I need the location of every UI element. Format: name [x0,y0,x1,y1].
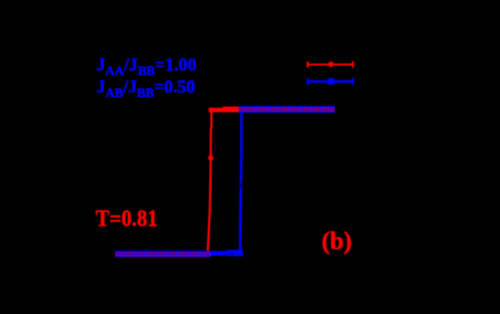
svg-text:T=0.81: T=0.81 [96,205,158,231]
series blue: lower band [115,251,210,258]
red marker on transition [208,155,213,160]
label JAB/JBB=0.50 [97,76,196,100]
dark marker dots in blue segment [229,253,231,255]
series blue: lower solid segment [210,251,243,256]
label (b) [322,228,352,255]
dark marker on blue transition [239,183,242,188]
series blue: upper band [239,106,335,113]
series red: upper dotted rows over blue band [240,108,334,111]
legend blue errorbar [307,78,353,85]
label JAA/JBB=1.00 [97,54,197,78]
legend red errorbar [307,61,353,67]
series blue: transition line [240,112,241,251]
series red: lower dotted rows over blue band [116,253,210,256]
svg-text:(b): (b) [322,228,352,255]
label T=0.81 [96,205,158,231]
series red: transition line [208,108,212,252]
series red: upper solid segment [209,108,223,112]
